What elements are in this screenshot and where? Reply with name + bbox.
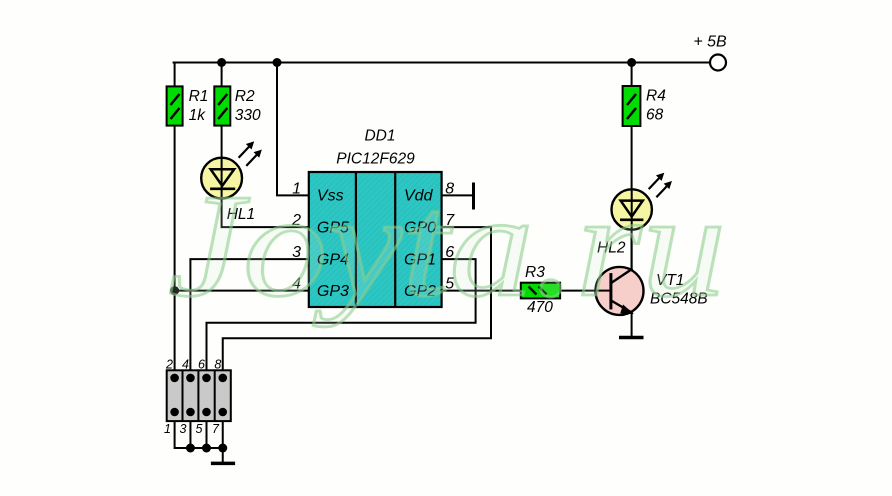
wire R4 bottom to HL2 top [631, 126, 633, 189]
wire rail down to R4 [631, 63, 633, 87]
node rail-pin1 [273, 58, 282, 67]
terminal +5V circle [710, 55, 726, 71]
ground symbol below VT1 [619, 336, 644, 340]
svg-text:R4: R4 [646, 88, 666, 105]
wire VT1 emitter to ground [631, 313, 633, 337]
wire chip pin3 GP4 left and down to connector pin4 [190, 259, 308, 370]
wire rail corner down to R1 [174, 63, 176, 87]
wire HL2 bottom to VT1 collector [631, 230, 633, 271]
wire bus down to ground [222, 448, 224, 462]
resistor R4 [623, 86, 641, 126]
wire R1 bottom down to connector pin2 [174, 126, 176, 371]
svg-text:4: 4 [182, 358, 189, 372]
wire rail to R2 top [221, 63, 223, 87]
wire HL1 bottom down then right to chip pin2 GP5 [222, 199, 309, 227]
wire rail down to chip pin1 Vss [277, 63, 309, 196]
svg-text:8: 8 [214, 358, 221, 372]
svg-text:1k: 1k [189, 107, 207, 124]
pin8 terminal bar [472, 184, 475, 208]
wire chip pin7 GP0 right, down, left, down to connector pin8 [223, 227, 491, 370]
svg-text:+ 5B: + 5B [693, 34, 727, 51]
svg-text:2: 2 [165, 358, 173, 372]
ground symbol below connector [211, 462, 235, 466]
resistor R1 [167, 86, 183, 125]
svg-text:Joyta.ru: Joyta.ru [168, 164, 726, 328]
transistor VT1 [596, 230, 644, 315]
connector X1 [167, 370, 231, 421]
LED HL2 [612, 174, 672, 230]
node rail-R4 [627, 58, 636, 67]
IC DD1 PIC12F629 [309, 172, 442, 307]
wire chip pin8 Vdd stub [442, 194, 474, 196]
wire R2 bottom to HL1 top [221, 126, 223, 158]
svg-text:6: 6 [198, 358, 205, 372]
svg-text:5: 5 [196, 422, 203, 436]
wire top +5V rail [174, 62, 710, 64]
resistor R2 [214, 86, 230, 125]
node bus-pin5 [202, 444, 211, 453]
wire connector pin7 down to bus [222, 421, 224, 448]
wire chip pin5 GP2 right to R3 [442, 290, 521, 292]
svg-text:7: 7 [212, 422, 220, 436]
node bus-pin7 [218, 444, 227, 453]
wire connector pin1 down and right to ground bus [175, 421, 223, 448]
node bus-pin3 [186, 444, 195, 453]
svg-text:330: 330 [235, 107, 261, 124]
node A GP3-R1 [170, 286, 179, 295]
wire connector pin3 down to bus [189, 421, 191, 448]
svg-text:3: 3 [180, 422, 187, 436]
LED HL1 [201, 142, 261, 199]
wire chip pin6 GP1 right, down, left, down to connector pin6 [207, 259, 476, 370]
node rail-R2 [217, 58, 226, 67]
wire chip pin4 GP3 left to junction node A [175, 290, 309, 292]
connector contact dots [170, 374, 179, 383]
svg-text:R1: R1 [189, 88, 209, 105]
svg-text:DD1: DD1 [364, 128, 395, 145]
resistor R3 [521, 283, 560, 299]
wire R3 to VT1 base [560, 290, 596, 292]
svg-text:R2: R2 [235, 88, 255, 105]
svg-text:68: 68 [646, 107, 664, 124]
wire connector pin5 down to bus [206, 421, 208, 448]
svg-text:1: 1 [164, 422, 171, 436]
